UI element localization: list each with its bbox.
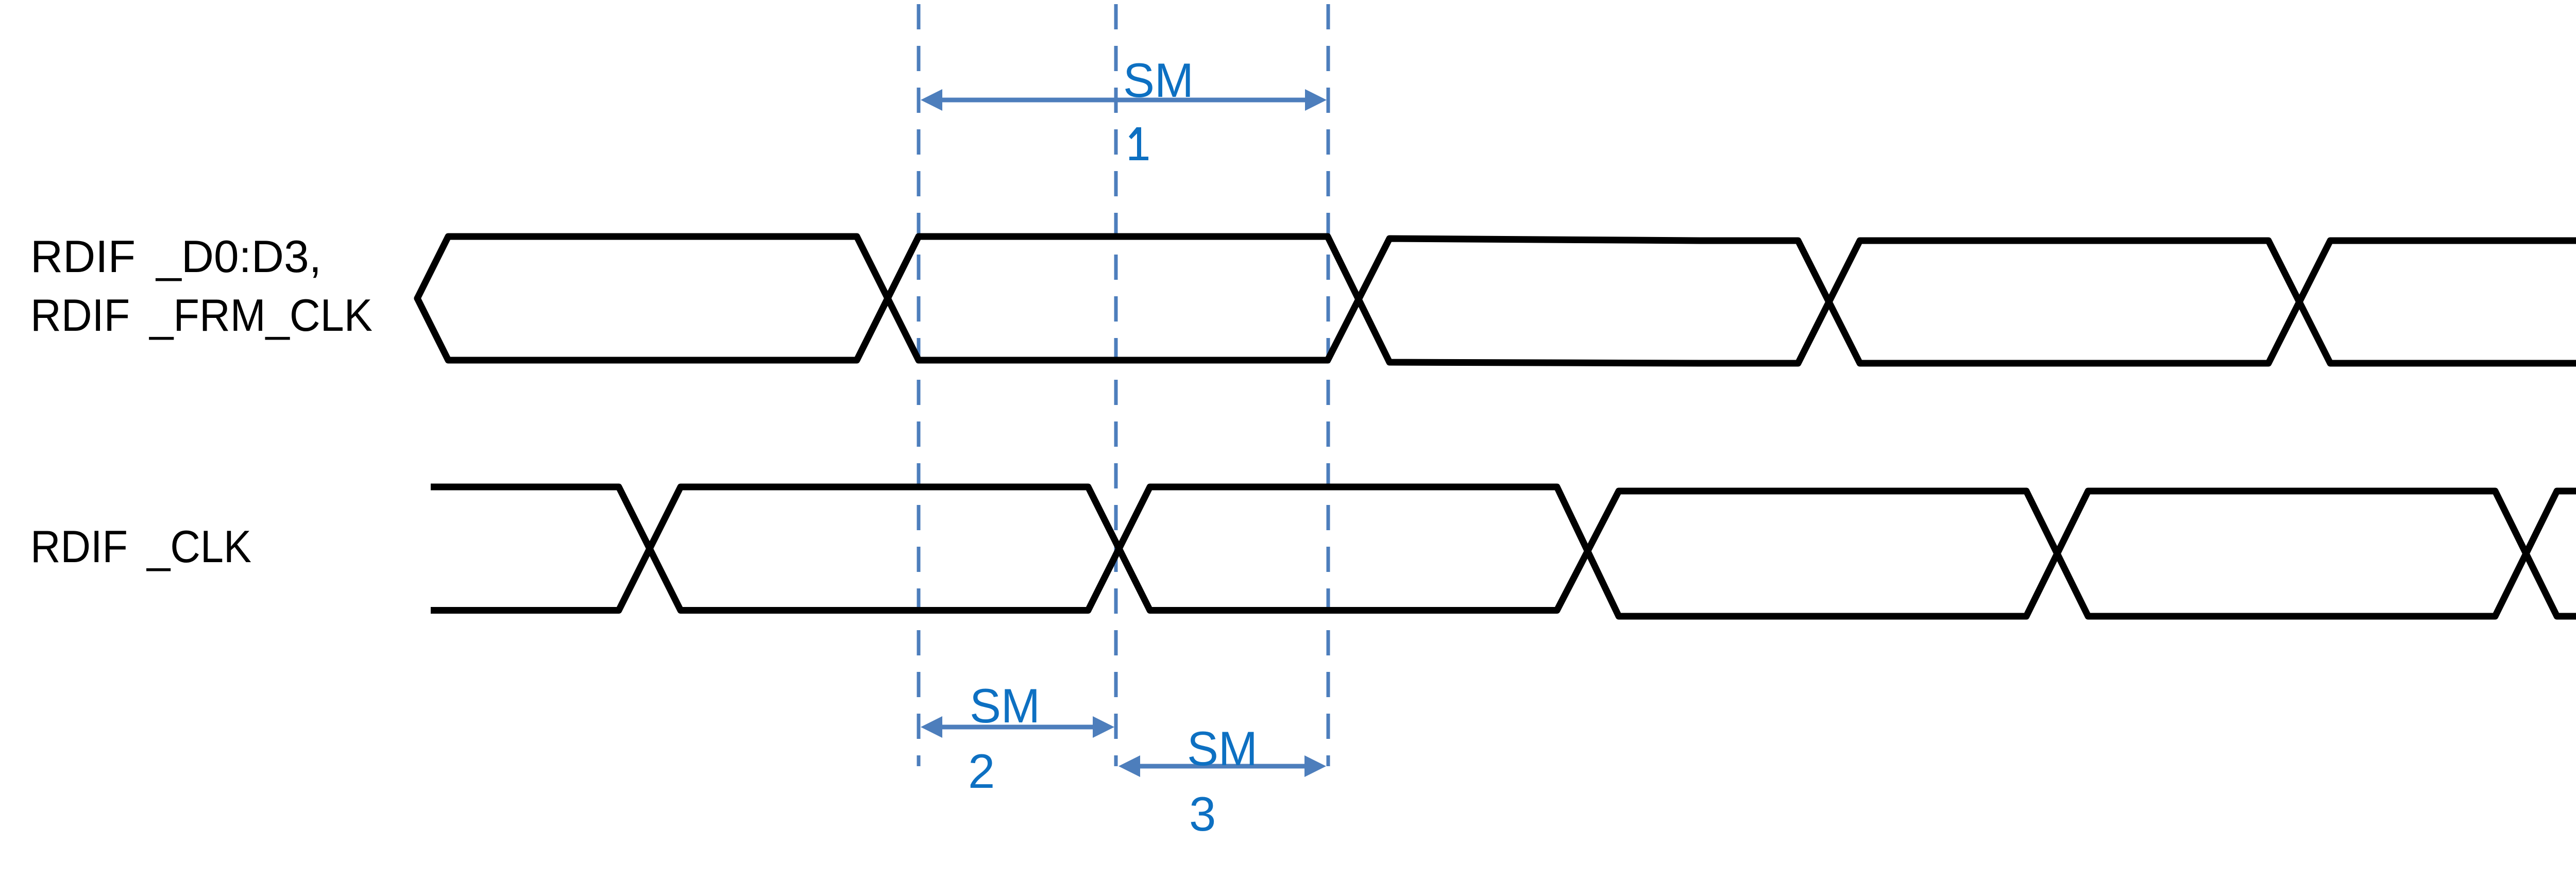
node SM1-start cursor (dashed line 1) <box>917 4 921 766</box>
node SM2-end cursor (dashed line 2) <box>1114 4 1118 766</box>
dimension arrow SM2 <box>921 716 1114 738</box>
wire bus waveform RDIF_CLK lower zigzag <box>431 487 2576 616</box>
svg-text:RDIF _D0:D3,: RDIF _D0:D3, <box>30 231 321 282</box>
dimension arrow SM3 <box>1118 755 1326 777</box>
node SM1-end cursor (dashed line 3) <box>1327 4 1330 766</box>
signal label RDIF_D0:D3, RDIF_FRM_CLK <box>30 231 372 341</box>
label digit 1 (calibri-style with foot serif) <box>1129 127 1148 160</box>
dimension arrow SM1 <box>921 89 1327 111</box>
svg-text:SM: SM <box>970 679 1040 733</box>
signal label RDIF_CLK <box>30 521 251 572</box>
wire bus waveform RDIF_D0:D3 lower zigzag <box>417 237 2576 363</box>
wire bus waveform RDIF_D0:D3 upper zigzag <box>417 237 2576 363</box>
label SM 1 <box>1123 53 1194 107</box>
svg-text:SM: SM <box>1123 53 1194 107</box>
svg-text:SM: SM <box>1187 721 1258 775</box>
label SM 2 <box>968 679 1040 798</box>
svg-text:RDIF _CLK: RDIF _CLK <box>30 521 251 572</box>
svg-text:3: 3 <box>1189 787 1216 841</box>
wire bus waveform RDIF_CLK upper zigzag <box>431 487 2576 616</box>
svg-text:RDIF _FRM_CLK: RDIF _FRM_CLK <box>30 290 372 341</box>
label SM 3 <box>1187 721 1258 841</box>
svg-text:2: 2 <box>968 744 995 798</box>
